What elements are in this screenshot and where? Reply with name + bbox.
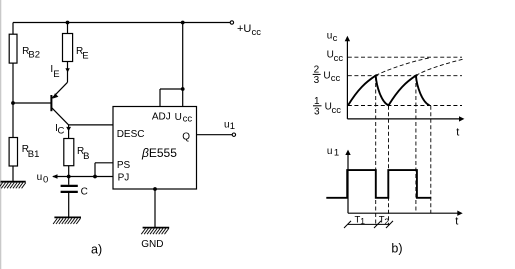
svg-text:Q: Q xyxy=(182,131,190,142)
svg-text:3: 3 xyxy=(314,75,320,86)
svg-text:PJ: PJ xyxy=(118,172,130,183)
svg-text:U: U xyxy=(175,112,182,123)
svg-text:E: E xyxy=(53,69,59,80)
svg-text:GND: GND xyxy=(141,239,163,250)
svg-text:PS: PS xyxy=(117,160,131,171)
svg-text:t: t xyxy=(456,126,459,138)
svg-text:3: 3 xyxy=(314,106,320,117)
svg-text:C: C xyxy=(58,125,65,136)
svg-text:u: u xyxy=(327,30,333,41)
svg-text:1: 1 xyxy=(360,216,365,226)
svg-text:u: u xyxy=(327,146,333,157)
svg-text:U: U xyxy=(323,70,330,81)
svg-text:0: 0 xyxy=(43,174,48,185)
svg-text:B1: B1 xyxy=(28,149,40,160)
svg-text:ADJ: ADJ xyxy=(152,112,171,123)
svg-text:βE555: βE555 xyxy=(141,146,177,160)
svg-text:+U: +U xyxy=(237,23,251,35)
svg-text:cc: cc xyxy=(332,105,342,116)
svg-text:DESC: DESC xyxy=(117,129,145,140)
svg-text:c: c xyxy=(333,33,338,44)
svg-text:b): b) xyxy=(391,242,402,256)
svg-text:B: B xyxy=(83,151,89,162)
svg-text:2: 2 xyxy=(384,216,389,226)
svg-text:C: C xyxy=(81,187,88,198)
svg-text:t: t xyxy=(455,216,458,228)
svg-text:cc: cc xyxy=(331,73,341,84)
svg-text:1: 1 xyxy=(314,96,320,107)
svg-text:u: u xyxy=(37,172,43,183)
svg-text:a): a) xyxy=(91,243,102,257)
svg-text:cc: cc xyxy=(252,27,262,38)
svg-text:1: 1 xyxy=(334,148,339,159)
svg-text:B2: B2 xyxy=(28,50,40,61)
svg-text:cc: cc xyxy=(334,53,344,64)
svg-text:E: E xyxy=(82,50,88,61)
svg-text:cc: cc xyxy=(183,113,193,124)
svg-text:1: 1 xyxy=(230,121,235,132)
